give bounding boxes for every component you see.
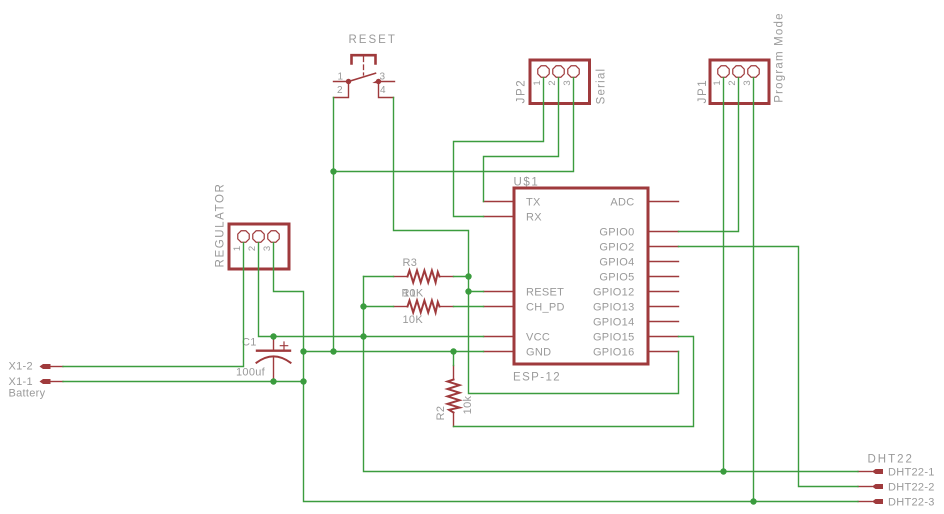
svg-text:2: 2 — [247, 246, 258, 251]
header JP1 pin 2 octagon — [733, 66, 744, 77]
regulator pin 3 octagon — [268, 231, 279, 242]
pin GPIO4 stub — [648, 261, 679, 263]
junction at wire C and switch-left net — [330, 168, 336, 174]
pin GPIO12 stub — [648, 291, 679, 293]
switch S1 lever — [349, 73, 376, 81]
svg-text:10K: 10K — [403, 314, 424, 326]
header JP1 pin 1 octagon — [718, 66, 729, 77]
wire JP2 pin2 to ESP TX — [484, 78, 559, 202]
svg-text:2: 2 — [547, 80, 558, 85]
switch S1 pin 1 junction dot — [346, 79, 351, 84]
svg-text:GPIO16: GPIO16 — [593, 346, 635, 358]
regulator pin 2 octagon — [253, 231, 264, 242]
pin RESET stub — [484, 291, 515, 293]
svg-text:1: 1 — [712, 80, 723, 85]
svg-text:GPIO4: GPIO4 — [599, 256, 634, 268]
svg-text:GPIO13: GPIO13 — [593, 301, 635, 313]
header JP2 pin 1 octagon — [538, 66, 549, 77]
svg-text:ESP-12: ESP-12 — [513, 372, 561, 384]
svg-text:TX: TX — [526, 196, 541, 208]
header REGULATOR box — [229, 224, 289, 269]
svg-text:RESET: RESET — [349, 34, 397, 46]
capacitor C1 bottom plate arc — [257, 356, 291, 362]
wire regulator pin3 to GND and DHT22-3 — [274, 243, 859, 502]
wire GPIO2 to DHT22-2 — [679, 247, 859, 487]
wire switch left to GND row — [333, 98, 335, 352]
switch S1 pin 2 leg — [334, 83, 349, 98]
resistor R2 body — [448, 380, 460, 413]
svg-text:3: 3 — [380, 72, 386, 83]
junction JP1 pin3 / DHT22-3 row — [750, 498, 756, 504]
svg-text:1: 1 — [338, 72, 344, 83]
switch S1 pin 3 stub — [379, 81, 395, 83]
pad DHT22-1 lead — [858, 471, 872, 473]
junction GND row start — [300, 348, 306, 354]
header JP1 box — [710, 60, 769, 104]
wire switch right to RESET net and GPIO16 — [394, 98, 679, 394]
svg-text:Battery: Battery — [9, 388, 46, 400]
capacitor C1 bottom lead — [273, 358, 275, 382]
wire GND row — [304, 351, 484, 353]
junction X1-1 row end / GND vertical — [300, 378, 306, 384]
wire RESET junction to RESET stub — [469, 291, 484, 293]
pin GPIO13 stub — [648, 306, 679, 308]
wire VCC vertical to DHT22-1 — [364, 277, 859, 472]
svg-text:GPIO0: GPIO0 — [599, 226, 634, 238]
wire R3 right to RESET net — [454, 276, 469, 278]
resistor R2 bottom lead — [453, 413, 455, 427]
svg-text:RX: RX — [526, 211, 542, 223]
header JP2 box — [530, 60, 590, 104]
wire JP2 pin1 to ESP RX — [454, 78, 544, 217]
pad DHT22-3 lead — [858, 501, 872, 503]
svg-text:GND: GND — [526, 346, 551, 358]
svg-text:1: 1 — [232, 246, 243, 251]
junction VCC vertical / VCC row — [360, 333, 366, 339]
pad DHT22-2 lead — [858, 486, 872, 488]
resistor R3 body — [408, 271, 440, 283]
junction switch-left / GND row — [330, 348, 336, 354]
pin GPIO15 stub — [648, 336, 679, 338]
svg-text:X1-1: X1-1 — [9, 376, 33, 388]
header JP1 pin 3 octagon — [748, 66, 759, 77]
pin CH_PD stub — [484, 306, 515, 308]
svg-text:R2: R2 — [435, 406, 447, 421]
header JP2 pin 2 octagon — [553, 66, 564, 77]
pin GPIO16 stub — [648, 351, 679, 353]
pad X1-2 — [40, 364, 51, 369]
junction R2 top / GND row — [450, 348, 456, 354]
pin GPIO2 stub — [648, 246, 679, 248]
wire R3 left lead link — [364, 276, 394, 278]
IC U$1 ESP-12 box — [514, 188, 648, 364]
svg-text:DHT22-3: DHT22-3 — [888, 496, 935, 508]
pad X1-1 lead — [51, 381, 64, 383]
pin GPIO14 stub — [648, 321, 679, 323]
pad DHT22-2 — [872, 484, 883, 489]
pad DHT22-1 — [872, 469, 883, 474]
svg-text:ADC: ADC — [610, 196, 634, 208]
wire regulator pin1 to X1-2 — [63, 243, 244, 367]
pin RX stub — [484, 216, 515, 218]
svg-text:DHT22-2: DHT22-2 — [888, 481, 935, 493]
wire R1 left lead link — [364, 306, 394, 308]
wire X1-1 row — [63, 381, 304, 383]
svg-text:3: 3 — [742, 80, 753, 85]
svg-text:4: 4 — [380, 85, 386, 96]
junction R1 left / VCC vertical — [360, 303, 366, 309]
switch S1 actuator bracket — [352, 55, 376, 63]
svg-text:JP1: JP1 — [697, 79, 709, 104]
capacitor C1 top lead — [273, 337, 275, 350]
resistor R1 right lead — [440, 306, 454, 308]
pin GPIO5 stub — [648, 276, 679, 278]
wire JP1 pin3 to DHT22-3 row — [753, 78, 755, 502]
svg-text:U$1: U$1 — [514, 176, 540, 188]
svg-text:C1: C1 — [242, 337, 257, 349]
wire JP2 pin3 to GND net — [334, 78, 574, 172]
junction reset stub / reset net — [465, 288, 471, 294]
capacitor C1 plus sign — [280, 342, 287, 350]
switch S1 pin 1 stub — [334, 81, 349, 83]
svg-text:Serial: Serial — [596, 68, 608, 105]
pin TX stub — [484, 201, 515, 203]
svg-text:2: 2 — [727, 80, 738, 85]
junction JP1 pin1 / DHT22-1 row — [720, 468, 726, 474]
header JP2 pin 3 octagon — [568, 66, 579, 77]
svg-text:3: 3 — [262, 246, 273, 251]
wire JP1 pin1 to DHT22-1 row — [723, 78, 725, 472]
svg-text:DHT22: DHT22 — [868, 454, 914, 466]
regulator pin 1 octagon — [238, 231, 249, 242]
wire R1 right to CH_PD — [454, 306, 484, 308]
pin VCC stub — [484, 336, 515, 338]
resistor R3 left lead — [394, 276, 408, 278]
wire R2 top to GND — [453, 352, 455, 366]
resistor R1 body — [408, 301, 440, 313]
pin GPIO0 stub — [648, 231, 679, 233]
svg-text:1: 1 — [532, 80, 543, 85]
svg-text:JP2: JP2 — [516, 79, 528, 104]
svg-text:100uf: 100uf — [236, 367, 266, 379]
svg-text:GPIO5: GPIO5 — [599, 271, 634, 283]
svg-text:GPIO12: GPIO12 — [593, 286, 635, 298]
svg-text:DHT22-1: DHT22-1 — [888, 466, 935, 478]
svg-text:VCC: VCC — [526, 331, 550, 343]
pin ADC stub — [648, 201, 679, 203]
svg-text:2: 2 — [337, 85, 343, 96]
svg-text:R1: R1 — [402, 288, 417, 300]
switch S1 pin 3 junction dot — [376, 79, 381, 84]
svg-text:X1-2: X1-2 — [9, 361, 33, 373]
capacitor C1 top plate — [257, 350, 290, 352]
svg-text:3: 3 — [562, 80, 573, 85]
svg-text:GPIO14: GPIO14 — [593, 316, 635, 328]
wire GPIO0 to JP1 pin2 — [679, 78, 739, 232]
pin GND stub — [484, 351, 515, 353]
resistor R3 right lead — [440, 276, 454, 278]
pad DHT22-3 — [872, 499, 883, 504]
svg-text:GPIO2: GPIO2 — [599, 241, 634, 253]
switch S1 contact arrow — [372, 80, 378, 84]
svg-text:GPIO15: GPIO15 — [593, 331, 635, 343]
svg-text:CH_PD: CH_PD — [526, 301, 565, 313]
wire VCC row — [259, 243, 484, 337]
junction R3 right / reset net — [465, 273, 471, 279]
svg-text:RESET: RESET — [526, 286, 564, 298]
svg-text:REGULATOR: REGULATOR — [215, 183, 227, 268]
resistor R2 top lead — [453, 366, 455, 380]
junction C1 top / VCC row — [270, 333, 276, 339]
svg-text:R3: R3 — [403, 257, 418, 269]
wire R2 bottom to GPIO15 — [454, 337, 694, 427]
svg-text:Program Mode: Program Mode — [774, 12, 786, 102]
switch S1 actuator dashed stem — [363, 57, 365, 75]
resistor R1 left lead — [394, 306, 408, 308]
pad X1-2 lead — [51, 366, 64, 368]
svg-text:10k: 10k — [462, 395, 474, 414]
pad X1-1 — [40, 379, 51, 384]
switch S1 pin 4 leg — [379, 83, 394, 98]
junction C1 bottom / X1-1 row — [270, 378, 276, 384]
